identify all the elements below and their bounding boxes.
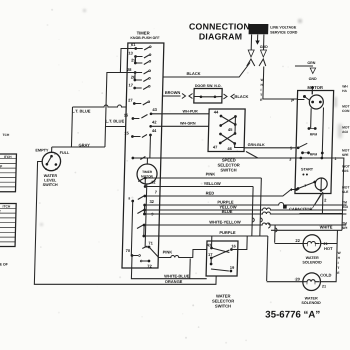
water selector switch — [205, 236, 247, 308]
title CONNECTION DIAGRAM — [189, 22, 251, 42]
svg-text:GRN: GRN — [307, 61, 315, 65]
svg-text:DIAGRAM: DIAGRAM — [199, 31, 243, 41]
scan smudges — [334, 97, 337, 107]
wire lt blue 1 (horizontal) — [71, 105, 126, 147]
svg-text:8: 8 — [128, 197, 130, 201]
svg-text:RPM: RPM — [310, 153, 318, 157]
wire white (neutral) — [271, 224, 342, 230]
svg-text:16: 16 — [231, 244, 236, 249]
wire purple 2 — [144, 230, 268, 236]
svg-text:P: P — [291, 98, 294, 103]
svg-text:HOT: HOT — [324, 246, 333, 251]
svg-text:3: 3 — [289, 157, 292, 162]
svg-text:47: 47 — [213, 145, 218, 150]
svg-text:32: 32 — [149, 199, 154, 204]
svg-text:WATER: WATER — [306, 256, 319, 260]
svg-text:WHITE: WHITE — [320, 224, 333, 229]
right edge cut labels — [338, 85, 350, 230]
svg-text:BLUE: BLUE — [222, 209, 233, 214]
capacitor note — [283, 192, 327, 211]
left note text — [0, 263, 9, 272]
svg-text:MOT: MOT — [342, 149, 349, 153]
timer contact 17 — [128, 83, 150, 90]
svg-text:28: 28 — [127, 67, 132, 72]
svg-text:BLACK: BLACK — [187, 71, 201, 76]
wire brown: timer to door switch — [162, 90, 192, 98]
svg-text:WH-GRN: WH-GRN — [180, 121, 196, 125]
svg-text:L.T. BLUE: L.T. BLUE — [72, 109, 91, 114]
svg-text:T: T — [260, 93, 262, 97]
svg-text:21: 21 — [322, 285, 326, 289]
svg-text:22: 22 — [295, 238, 300, 243]
cord conductor N (hollow arrow) — [260, 35, 267, 58]
motor main winding — [291, 90, 324, 109]
svg-text:WHITE-YELLOW: WHITE-YELLOW — [209, 220, 241, 225]
svg-text:43: 43 — [152, 107, 157, 112]
timer lower contacts 32 7 32 9 — [137, 177, 158, 238]
svg-text:PINK: PINK — [206, 172, 216, 177]
svg-text:R: R — [0, 169, 1, 173]
svg-text:44: 44 — [214, 110, 219, 115]
svg-text:I: I — [338, 261, 339, 265]
svg-text:START: START — [301, 168, 314, 172]
svg-text:P: P — [55, 152, 57, 156]
hot water solenoid — [274, 230, 338, 281]
svg-text:17: 17 — [128, 83, 133, 88]
svg-text:17: 17 — [208, 252, 213, 257]
motor box — [295, 85, 334, 193]
svg-text:AGI: AGI — [342, 130, 348, 134]
svg-text:NT: NT — [0, 210, 1, 214]
svg-text:H: H — [338, 256, 341, 260]
svg-text:TM: TM — [342, 201, 347, 205]
svg-text:EMPTY: EMPTY — [35, 148, 49, 152]
timer contact row 16 — [131, 157, 160, 160]
svg-text:SLE: SLE — [342, 190, 349, 194]
timer contact 28 — [127, 67, 151, 80]
svg-text:YELLOW: YELLOW — [204, 181, 221, 186]
svg-text:CAPACITOR: CAPACITOR — [289, 207, 313, 212]
wire purple — [145, 199, 347, 205]
wire lt blue 2 — [105, 119, 126, 127]
svg-text:46: 46 — [227, 146, 232, 151]
cord conductor L (hollow arrow) — [248, 35, 255, 58]
cold water solenoid — [266, 272, 332, 305]
svg-text:ORANGE: ORANGE — [165, 279, 183, 284]
wire black: timer to splice L — [163, 63, 250, 78]
wire white: splice N down to motor P — [260, 67, 298, 102]
wire lt blue upper — [105, 49, 136, 148]
wire from 2 to right bus — [321, 194, 324, 214]
svg-text:HA: HA — [342, 89, 347, 93]
wire wh-grn — [151, 121, 209, 126]
svg-text:I: I — [260, 88, 261, 92]
wire white-yellow — [144, 220, 346, 225]
svg-text:SWITCH: SWITCH — [215, 304, 231, 309]
wire yellow 2 — [145, 205, 347, 210]
svg-text:71: 71 — [148, 241, 153, 246]
svg-text:PINK: PINK — [163, 250, 173, 255]
svg-text:BLACK: BLACK — [234, 94, 248, 99]
wire wh-pur — [151, 109, 209, 113]
splice L (Y) — [247, 59, 255, 66]
wire gray — [52, 143, 105, 153]
svg-text:COLD: COLD — [320, 272, 332, 277]
svg-text:BROWN: BROWN — [165, 90, 181, 95]
wire grn-blk to motor 5 — [244, 143, 296, 148]
svg-text:2: 2 — [324, 198, 327, 203]
svg-text:W: W — [338, 251, 342, 255]
svg-text:FULL: FULL — [60, 151, 70, 155]
svg-text:RPM: RPM — [310, 133, 318, 137]
svg-text:WOT: WOT — [342, 165, 350, 169]
left legend table 1 — [0, 154, 16, 192]
svg-text:E: E — [337, 271, 340, 275]
door switch DOOR SW. N.O. — [194, 84, 222, 103]
white vertical label — [337, 251, 342, 275]
timer terminal 42 — [149, 120, 157, 128]
svg-text:AGI: AGI — [342, 205, 348, 209]
svg-text:T: T — [337, 266, 339, 270]
svg-text:RED: RED — [206, 190, 215, 195]
svg-text:MOT: MOT — [342, 186, 349, 190]
svg-text:TIMER: TIMER — [142, 170, 153, 174]
svg-text:19: 19 — [230, 265, 235, 270]
svg-text:L.T. BLUE: L.T. BLUE — [105, 119, 124, 124]
svg-text:TIMER: TIMER — [137, 30, 150, 35]
svg-text:WATER: WATER — [305, 297, 318, 301]
svg-text:PURPLE: PURPLE — [217, 199, 234, 204]
speed selector switch — [207, 109, 259, 172]
svg-text:1: 1 — [304, 184, 306, 188]
wire pink — [145, 172, 261, 178]
svg-text:SPI: SPI — [342, 226, 348, 230]
motor terminal 5 — [290, 143, 324, 156]
svg-text:AP: AP — [0, 164, 3, 168]
svg-text:SWITCH: SWITCH — [43, 183, 58, 187]
timer contact 61 — [131, 42, 151, 50]
timer contact 26 — [131, 75, 151, 82]
svg-text:WH-PUR: WH-PUR — [182, 109, 198, 113]
svg-text:15: 15 — [124, 131, 129, 136]
wire blue — [144, 209, 346, 214]
vertical feeders to solenoids — [251, 178, 279, 281]
svg-text:MOT: MOT — [342, 126, 349, 130]
svg-text:SOLENOID: SOLENOID — [302, 261, 322, 265]
wire yellow — [145, 181, 253, 187]
svg-text:GRN-BLK: GRN-BLK — [248, 143, 265, 147]
svg-text:FAS: FAS — [342, 169, 349, 173]
svg-text:WATER: WATER — [44, 174, 58, 178]
svg-text:SERVICE CORD: SERVICE CORD — [270, 30, 298, 34]
wire to motor 3 — [161, 157, 296, 159]
svg-text:42: 42 — [152, 120, 157, 125]
timer box — [122, 30, 164, 268]
svg-text:GND: GND — [309, 77, 317, 81]
svg-text:MOTOR: MOTOR — [307, 85, 323, 90]
timer contact 15 / terminal 43 — [124, 107, 158, 120]
timer bottom contacts 70 71 72 — [125, 241, 158, 269]
splice N (Y) — [259, 59, 266, 66]
svg-text:ITCH: ITCH — [4, 155, 12, 159]
motor terminal 3 to 1 — [287, 156, 344, 230]
svg-text:SPE: SPE — [342, 153, 350, 157]
svg-text:C: C — [45, 167, 47, 171]
svg-text:LINE VOLTAGE: LINE VOLTAGE — [270, 26, 297, 30]
svg-text:KNOB-PUSH OFF: KNOB-PUSH OFF — [130, 36, 160, 40]
svg-text:CON: CON — [342, 109, 350, 113]
svg-text:27: 27 — [128, 98, 133, 103]
svg-text:70: 70 — [126, 248, 131, 253]
svg-text:ITCH: ITCH — [3, 205, 11, 209]
wire red — [145, 190, 295, 197]
svg-text:15: 15 — [124, 113, 129, 118]
svg-text:32: 32 — [151, 180, 156, 185]
svg-text:MOT: MOT — [342, 105, 349, 109]
svg-text:PURPLE: PURPLE — [219, 230, 236, 235]
wire pink bottom to water selector — [158, 250, 207, 279]
motor terminal 4 — [290, 187, 298, 192]
left legend table 2 — [0, 204, 16, 247]
svg-text:SWITCH: SWITCH — [220, 168, 236, 173]
svg-text:44: 44 — [152, 128, 157, 133]
svg-text:SOLENOID: SOLENOID — [301, 301, 321, 305]
timer contact 27 — [128, 98, 150, 105]
water level switch — [34, 148, 70, 186]
svg-text:TM: TM — [342, 222, 347, 226]
svg-text:LEVEL: LEVEL — [44, 178, 57, 182]
ground lead arrow GRD — [255, 35, 268, 49]
wire black after door switch — [223, 94, 248, 99]
timer contact 29 — [131, 58, 151, 65]
svg-text:61: 61 — [131, 42, 136, 47]
svg-text:35-6776 “A”: 35-6776 “A” — [265, 310, 320, 321]
timer contact 15b / terminal 44 — [124, 128, 158, 158]
wire white-blue — [131, 256, 207, 279]
svg-text:TCH: TCH — [2, 133, 9, 137]
wire green to motor ground — [294, 61, 317, 94]
svg-text:WHITE-BLUE: WHITE-BLUE — [164, 274, 190, 279]
motor rpm contacts — [307, 108, 324, 159]
svg-text:WH: WH — [342, 85, 348, 89]
svg-text:ORE OF: ORE OF — [0, 263, 9, 267]
timer motor — [127, 158, 158, 256]
svg-text:CONNECTION: CONNECTION — [189, 22, 250, 32]
line voltage service cord plug — [249, 24, 269, 34]
timer contact 13 — [128, 51, 151, 63]
wire orange (long bottom left) — [34, 162, 219, 285]
motor start switch — [297, 168, 328, 192]
svg-text:7: 7 — [155, 190, 158, 195]
svg-text:DOOR SW. N.O.: DOOR SW. N.O. — [195, 84, 222, 88]
svg-text:13: 13 — [128, 51, 133, 56]
svg-text:45: 45 — [228, 127, 233, 132]
